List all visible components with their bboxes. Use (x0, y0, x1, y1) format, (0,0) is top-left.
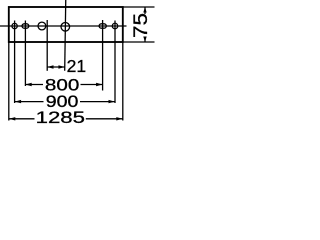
svg-text:75: 75 (131, 13, 152, 38)
svg-text:1285: 1285 (36, 108, 85, 127)
svg-text:21: 21 (67, 56, 86, 76)
svg-text:800: 800 (45, 77, 79, 95)
